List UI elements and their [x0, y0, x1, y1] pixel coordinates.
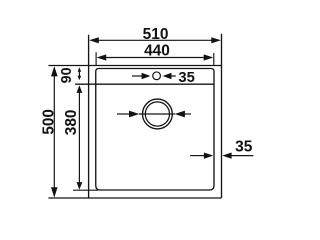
svg-text:380: 380: [63, 110, 80, 136]
dimension line 440: [100, 57, 210, 59]
arrowhead drain right: [175, 111, 185, 118]
arrowhead tap left: [142, 73, 151, 79]
arrowhead 500 bottom: [51, 187, 58, 197]
arrowhead 380 down: [77, 182, 83, 190]
rim 35 dimension right tail: [229, 155, 253, 157]
extension line 440 right: [213, 53, 215, 66]
bowl bottom left extension line: [73, 189, 98, 191]
drain outer circle: [143, 99, 173, 129]
arrowhead rim 35 left: [204, 153, 213, 159]
svg-text:510: 510: [143, 26, 169, 43]
drain inner circle: [145, 102, 169, 126]
outer sink outline bottom edge + left extension: [48, 197, 221, 199]
inner bowl rounded rectangle: [96, 69, 214, 191]
dimension line 510: [93, 39, 217, 41]
svg-text:90: 90: [59, 67, 75, 83]
arrowhead 510 left: [89, 37, 99, 43]
dimension line 380: [78, 87, 80, 188]
arrowhead 510 right: [211, 37, 221, 43]
drain centerline left tail: [117, 113, 131, 115]
arrowhead 440 right: [204, 54, 214, 60]
arrowhead rim 35 right: [222, 153, 231, 159]
drain centerline right tail: [184, 113, 192, 115]
svg-text:440: 440: [144, 42, 170, 59]
outer sink outline left edge + upper extension: [88, 35, 90, 198]
arrowhead drain left: [129, 111, 139, 118]
arrowhead 90 down: [78, 76, 82, 81]
tap dimension right tail: [171, 75, 176, 77]
arrowhead 90 up: [78, 67, 82, 72]
rim 35 dimension left tail: [190, 155, 206, 157]
arrowhead tap right: [163, 73, 172, 79]
arrowhead 440 left: [97, 54, 107, 60]
tap hole circle: [153, 72, 161, 80]
arrowhead 500 top: [51, 66, 58, 76]
dimension line 500: [53, 68, 55, 196]
svg-text:35: 35: [178, 70, 194, 86]
tap dimension left tail: [132, 75, 143, 77]
svg-text:35: 35: [235, 138, 253, 155]
drain centerline through circle: [139, 113, 175, 115]
extension line 440 left: [95, 52, 97, 65]
arrowhead 380 up: [77, 85, 83, 93]
ledge divider line + left extension: [75, 83, 214, 85]
dimension line 90 shaft: [78, 71, 80, 78]
svg-text:500: 500: [41, 109, 58, 135]
outer sink outline top edge + left extension: [48, 65, 221, 67]
outer sink outline right edge + upper extension: [221, 34, 223, 198]
